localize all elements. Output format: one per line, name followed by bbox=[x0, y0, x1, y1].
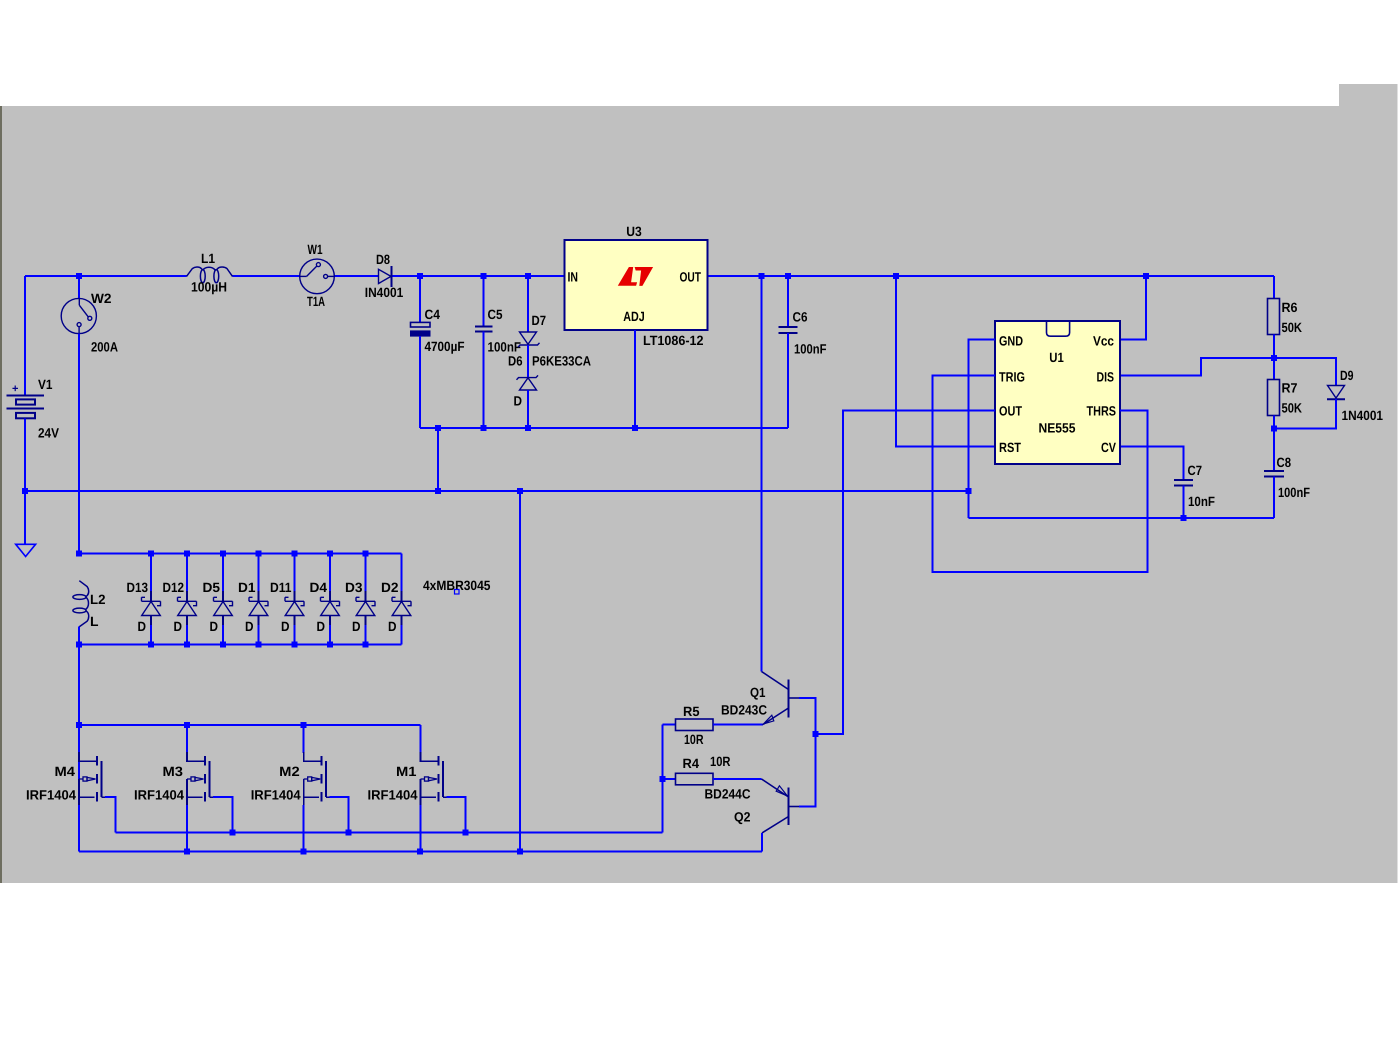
wire: Q2 base to junction bbox=[799, 734, 816, 807]
svg-text:R5: R5 bbox=[683, 704, 700, 719]
lead: source exit of M2 bbox=[326, 796, 331, 798]
resistor R4 body bbox=[676, 773, 714, 785]
node: D5 on bottom bus bbox=[220, 642, 226, 648]
wire: battery negative to ground bbox=[24, 418, 26, 544]
capacitor C8 plates bbox=[1264, 471, 1284, 477]
svg-text:D12: D12 bbox=[163, 580, 185, 595]
node: M1 source on bus bbox=[463, 830, 469, 836]
svg-text:T1A: T1A bbox=[307, 294, 325, 309]
wire: top rail to C6 bbox=[787, 276, 789, 327]
wire: D6 to ADJ rail bbox=[527, 390, 529, 428]
ammeter W2 body bbox=[61, 298, 96, 333]
svg-text:D13: D13 bbox=[127, 580, 149, 595]
wire: top bus to D12 bbox=[186, 554, 188, 593]
wire: junction to R7 bbox=[1273, 358, 1275, 380]
lead: source stub of M1 bbox=[421, 796, 437, 798]
node: D4 on top bus bbox=[327, 551, 333, 557]
node: gate-bus drop / ground bus bbox=[517, 488, 523, 494]
lead: anode of D5 bbox=[222, 591, 224, 601]
wire: drain riser of M4 bbox=[78, 725, 80, 753]
wire: riser to R5 bbox=[663, 724, 676, 726]
wire: R5 to Q1 emitter bbox=[713, 724, 763, 726]
resistor R6 body bbox=[1268, 299, 1280, 335]
node: M4 drain tap bbox=[76, 722, 82, 728]
wire: top bus to D13 bbox=[150, 554, 152, 593]
node: D3 on bottom bus bbox=[363, 642, 369, 648]
wire: D11 to bottom bus bbox=[294, 625, 296, 645]
wire: TRIG-THRS loop bbox=[933, 376, 1148, 573]
wire: riser to R4 bbox=[663, 778, 676, 780]
node: D4 on bottom bus bbox=[327, 642, 333, 648]
svg-text:100nF: 100nF bbox=[1278, 485, 1310, 500]
svg-text:P6KE33CA: P6KE33CA bbox=[532, 354, 591, 369]
svg-text:D: D bbox=[317, 619, 326, 634]
svg-text:IN4001: IN4001 bbox=[365, 285, 404, 300]
ground symbol bbox=[16, 544, 36, 556]
lead: anode of D12 bbox=[186, 591, 188, 601]
svg-text:LT1086-12: LT1086-12 bbox=[643, 333, 704, 348]
battery V1 long plate 2 bbox=[7, 407, 45, 409]
svg-text:C7: C7 bbox=[1188, 463, 1203, 478]
wire: R4 to Q2 emitter bbox=[713, 778, 762, 780]
node: ADJ pin on ADJ rail bbox=[632, 425, 638, 431]
svg-text:D3: D3 bbox=[345, 580, 363, 595]
svg-text:CV: CV bbox=[1101, 440, 1116, 455]
wire: ground return line bbox=[969, 517, 1275, 519]
svg-text:THRS: THRS bbox=[1087, 404, 1117, 419]
svg-text:10nF: 10nF bbox=[1188, 494, 1215, 509]
transistor M2 symbol bbox=[322, 756, 326, 802]
lead: cathode of D5 bbox=[222, 616, 224, 627]
svg-text:50K: 50K bbox=[1282, 320, 1303, 335]
svg-text:D: D bbox=[388, 619, 397, 634]
capacitor C4 plate 2 (solid) bbox=[411, 331, 431, 336]
wire: D4 to bottom bus bbox=[329, 625, 331, 645]
svg-text:L1: L1 bbox=[201, 251, 215, 266]
svg-text:R7: R7 bbox=[1282, 381, 1298, 396]
svg-text:OUT: OUT bbox=[680, 270, 702, 285]
lead: source stub of M3 bbox=[187, 796, 203, 798]
node: D11 on top bus bbox=[292, 551, 298, 557]
svg-text:D8: D8 bbox=[376, 252, 390, 267]
wire: MOSFET drain bus bbox=[79, 724, 421, 726]
svg-text:M3: M3 bbox=[163, 764, 184, 779]
lead: source stub of M4 bbox=[79, 796, 95, 798]
inductor L1 bbox=[187, 267, 233, 283]
ammeter W1 body bbox=[300, 259, 335, 294]
wire: source of M4 to source bus bbox=[105, 797, 116, 832]
wire: top rail to C5 bbox=[483, 276, 485, 326]
capacitor C6 plates bbox=[779, 327, 798, 333]
node: R6/R7/DIS/D9 junction bbox=[1271, 355, 1277, 361]
wire: junction to C8 bbox=[1273, 429, 1275, 472]
svg-text:D4: D4 bbox=[310, 580, 328, 595]
lead: gate line of M4 bbox=[78, 779, 80, 806]
LT logo left glyph bbox=[618, 267, 637, 286]
wire: gate line of M3 to bottom bus bbox=[186, 805, 188, 852]
node: D11 on bottom bus bbox=[292, 642, 298, 648]
svg-text:Vcc: Vcc bbox=[1093, 334, 1114, 349]
wire: D9 cathode to lower junction bbox=[1274, 399, 1336, 428]
svg-text:R4: R4 bbox=[683, 756, 700, 771]
IC U1 notch bbox=[1047, 322, 1070, 336]
capacitor C5 plates bbox=[475, 326, 493, 331]
lead: source exit of M1 bbox=[443, 796, 448, 798]
svg-text:R6: R6 bbox=[1282, 300, 1298, 315]
node: M2 drain tap bbox=[301, 722, 307, 728]
wire: D5 to bottom bus bbox=[222, 625, 224, 645]
node: M3 gate on bottom bus bbox=[184, 849, 190, 855]
wire: RST riser and lead bbox=[896, 276, 995, 447]
svg-text:D5: D5 bbox=[203, 580, 221, 595]
wire: C8 to ground return bbox=[1273, 477, 1275, 519]
node: rail link on ADJ rail bbox=[435, 425, 441, 431]
wire: top rail segment D8 to U3 IN bbox=[392, 275, 565, 277]
svg-text:4xMBR3045: 4xMBR3045 bbox=[423, 578, 491, 593]
svg-text:100nF: 100nF bbox=[794, 342, 827, 357]
wire: ADJ/ground rail bbox=[420, 427, 788, 429]
wire: top rail to W2 bbox=[78, 276, 80, 298]
lead: anode of D1 bbox=[258, 591, 260, 601]
node: C5 tap on top rail bbox=[481, 273, 487, 279]
capacitor C4 plate 1 bbox=[411, 322, 431, 327]
wire: top bus to D3 bbox=[365, 554, 367, 593]
svg-text:C4: C4 bbox=[425, 307, 441, 322]
svg-text:U3: U3 bbox=[626, 224, 642, 239]
svg-text:D: D bbox=[245, 619, 254, 634]
wire: gate line of M2 to bottom bus bbox=[303, 805, 305, 852]
wire: C6 to ADJ rail bbox=[787, 333, 789, 428]
regulator U3 body bbox=[565, 240, 708, 330]
wire: ADJ rail to ground bus link bbox=[437, 428, 439, 491]
svg-text:TRIG: TRIG bbox=[999, 370, 1025, 385]
resistor R7 body bbox=[1268, 380, 1280, 416]
wire: battery V1 positive riser bbox=[24, 276, 26, 396]
wire: top bus to D5 bbox=[222, 554, 224, 593]
node: D12 on bottom bus bbox=[184, 642, 190, 648]
wire: source bus bbox=[116, 832, 663, 834]
inductor L2 bbox=[73, 581, 89, 627]
wire: D3 to bottom bus bbox=[365, 625, 367, 645]
wire: junction to D9 anode bbox=[1274, 358, 1336, 386]
svg-text:100nF: 100nF bbox=[488, 340, 522, 355]
wire: top bus to D4 bbox=[329, 554, 331, 593]
lead: drain of M1 bbox=[421, 752, 438, 761]
wire: source bus riser to R5/R4 bbox=[662, 725, 664, 833]
svg-text:DIS: DIS bbox=[1097, 370, 1115, 385]
wire: GND lead down to ground return bbox=[969, 340, 996, 519]
node: top bus left end bbox=[76, 551, 82, 557]
ammeter W2 needle bbox=[77, 299, 92, 334]
svg-text:BD243C: BD243C bbox=[721, 703, 767, 718]
schottky diode D11 bbox=[285, 597, 304, 615]
svg-text:1N4001: 1N4001 bbox=[1342, 408, 1384, 423]
svg-text:4700µF: 4700µF bbox=[425, 339, 465, 354]
schottky diode D13 bbox=[142, 597, 161, 615]
wire: D13 to bottom bus bbox=[150, 625, 152, 645]
svg-text:L2: L2 bbox=[90, 592, 106, 607]
battery V1 long plate 1 bbox=[7, 394, 45, 396]
wire: U3 ADJ pin drop bbox=[634, 330, 636, 428]
wire: gate line of M1 to bottom bus bbox=[420, 805, 422, 852]
svg-text:C8: C8 bbox=[1277, 455, 1292, 470]
wire: drain riser of M1 bbox=[420, 725, 422, 753]
lead: anode of D2 bbox=[401, 591, 403, 601]
battery V1 short plate 1 bbox=[16, 399, 35, 404]
svg-text:OUT: OUT bbox=[999, 404, 1023, 419]
node: W2 tap on top rail bbox=[76, 273, 82, 279]
wire: top bus to D1 bbox=[258, 554, 260, 593]
node: C6 tap on top rail bbox=[785, 273, 791, 279]
lead: anode of D11 bbox=[294, 591, 296, 601]
transistor M3 symbol bbox=[205, 756, 209, 802]
node: D3 on top bus bbox=[363, 551, 369, 557]
wire: D7 to D6 bbox=[527, 345, 529, 378]
transistor Q2 bbox=[762, 779, 801, 833]
svg-text:24V: 24V bbox=[38, 426, 59, 441]
lead: cathode of D11 bbox=[294, 616, 296, 627]
svg-text:D2: D2 bbox=[381, 580, 399, 595]
wire: C7 to ground return bbox=[1183, 486, 1185, 519]
svg-text:D: D bbox=[352, 619, 361, 634]
wire: top rail to D7 bbox=[527, 276, 529, 332]
svg-text:W1: W1 bbox=[308, 242, 323, 257]
lead: drain of M4 bbox=[79, 752, 96, 761]
node: C4 tap on top rail bbox=[417, 273, 423, 279]
svg-text:200A: 200A bbox=[91, 340, 118, 355]
wire: top rail segment L1 to W1 bbox=[233, 275, 301, 277]
node: RST riser tap bbox=[893, 273, 899, 279]
schottky diode D1 bbox=[249, 597, 268, 615]
svg-text:Q1: Q1 bbox=[750, 685, 766, 700]
node: D1 on bottom bus bbox=[256, 642, 262, 648]
lead: source exit of M3 bbox=[209, 796, 214, 798]
wire: DIS to R6/R7 junction bbox=[1120, 358, 1274, 376]
wire: drain riser of M3 bbox=[186, 725, 188, 753]
svg-text:100µH: 100µH bbox=[191, 280, 227, 295]
selection marker square bbox=[455, 590, 460, 595]
schottky diode D4 bbox=[321, 597, 340, 615]
node: rail link / ground bus bbox=[435, 488, 441, 494]
transistor M4 symbol bbox=[97, 756, 101, 802]
svg-text:L: L bbox=[90, 614, 99, 629]
lead: anode of D13 bbox=[150, 591, 152, 601]
svg-text:10R: 10R bbox=[710, 754, 731, 769]
node: M3 drain tap bbox=[184, 722, 190, 728]
transistor M1 symbol bbox=[439, 756, 443, 802]
TVS diode D7 bbox=[518, 332, 540, 347]
svg-text:C5: C5 bbox=[488, 307, 503, 322]
node: D1 on top bus bbox=[256, 551, 262, 557]
node: D6 on ADJ rail bbox=[525, 425, 531, 431]
lead: cathode of D1 bbox=[258, 616, 260, 627]
svg-text:U1: U1 bbox=[1049, 350, 1064, 365]
svg-text:10R: 10R bbox=[684, 732, 704, 747]
node: Vcc riser tap bbox=[1143, 273, 1149, 279]
node: D5 on top bus bbox=[220, 551, 226, 557]
svg-text:ADJ: ADJ bbox=[623, 309, 645, 324]
lead: cathode of D3 bbox=[365, 616, 367, 627]
TVS diode D6 bbox=[517, 375, 539, 390]
wire: CV lead to C7 bbox=[1120, 447, 1184, 481]
lead: gate line of M1 bbox=[420, 779, 422, 806]
wire: source of M3 to source bus bbox=[213, 797, 232, 832]
svg-text:IRF1404: IRF1404 bbox=[251, 788, 301, 803]
lead: cathode of D2 bbox=[401, 616, 403, 627]
lead: anode of D4 bbox=[329, 591, 331, 601]
lead: gate line of M2 bbox=[303, 779, 305, 806]
wire: OUT to transistor bases bbox=[816, 411, 996, 735]
node: D7 tap on top rail bbox=[525, 273, 531, 279]
node: ground drop on bottom bus bbox=[517, 849, 523, 855]
wire: D12 to bottom bus bbox=[186, 625, 188, 645]
lead: cathode of D12 bbox=[186, 616, 188, 627]
LT logo right glyph bbox=[635, 267, 654, 286]
lead: anode of D3 bbox=[365, 591, 367, 601]
svg-text:GND: GND bbox=[999, 334, 1023, 349]
wire: top rail to C4 bbox=[419, 276, 421, 322]
capacitor C7 plates bbox=[1174, 480, 1193, 486]
wire: R7 to lower junction bbox=[1273, 416, 1275, 429]
svg-text:D: D bbox=[514, 394, 523, 409]
wire: left drop diode bus to bottom bus bbox=[78, 645, 80, 852]
lead: cathode of D13 bbox=[150, 616, 152, 627]
node: Q1 collector riser tap bbox=[759, 273, 765, 279]
schottky diode D5 bbox=[214, 597, 233, 615]
wire: top bus to D11 bbox=[294, 554, 296, 593]
node: D13 on bottom bus bbox=[148, 642, 154, 648]
schottky diode D3 bbox=[356, 597, 375, 615]
svg-text:D: D bbox=[174, 619, 183, 634]
wire: top rail segment U3 OUT to R6 bbox=[708, 275, 1275, 277]
svg-text:D: D bbox=[281, 619, 290, 634]
svg-text:RST: RST bbox=[999, 440, 1022, 455]
diode D9 bbox=[1327, 386, 1345, 400]
svg-text:50K: 50K bbox=[1282, 401, 1303, 416]
ammeter W1 needle bbox=[300, 263, 334, 279]
wire: L2 to bottom bus bbox=[78, 627, 80, 645]
svg-text:Q2: Q2 bbox=[734, 810, 751, 825]
wire: top rail segment W1 to D8 bbox=[334, 275, 379, 277]
svg-text:D6: D6 bbox=[508, 354, 523, 369]
wire: top bus to D2 bbox=[401, 554, 403, 593]
wire: Q1 base to junction bbox=[799, 698, 816, 734]
wire: C5 to ADJ rail bbox=[483, 332, 485, 428]
svg-text:+: + bbox=[12, 383, 18, 395]
resistor R5 body bbox=[676, 719, 714, 731]
svg-text:D9: D9 bbox=[1340, 368, 1354, 383]
node: M2 gate on bottom bus bbox=[301, 849, 307, 855]
wire: drain riser of M2 bbox=[303, 725, 305, 753]
battery V1 short plate 2 bbox=[16, 413, 35, 418]
wire: W2 to diode top bus bbox=[78, 334, 80, 554]
wire: Vcc riser and lead bbox=[1120, 276, 1146, 340]
gray step top-right bbox=[1339, 84, 1398, 108]
wire: gate line of M4 to bottom bus bbox=[78, 805, 80, 852]
wire: source of M2 to source bus bbox=[330, 797, 349, 832]
node: C5 on ADJ rail bbox=[481, 425, 487, 431]
node: C7 on ground return bbox=[1181, 515, 1187, 521]
svg-text:NE555: NE555 bbox=[1039, 421, 1076, 436]
svg-text:BD244C: BD244C bbox=[705, 787, 751, 802]
lead: source exit of M4 bbox=[101, 796, 106, 798]
lead: source stub of M2 bbox=[304, 796, 320, 798]
node: R4 tap on riser bbox=[660, 776, 666, 782]
wire: Q1 collector riser bbox=[761, 276, 763, 672]
wire: Q2 collector to bottom bus bbox=[761, 833, 763, 852]
left window border bbox=[0, 106, 2, 883]
schematic gray canvas bbox=[2, 106, 1398, 883]
svg-text:D11: D11 bbox=[270, 580, 292, 595]
schottky diode D2 bbox=[392, 597, 411, 615]
diode D8 bbox=[379, 266, 392, 287]
wire: ground bus to bottom bus drop bbox=[519, 491, 521, 852]
svg-text:D: D bbox=[210, 619, 219, 634]
schottky diode D12 bbox=[178, 597, 197, 615]
wire: source of M1 to source bus bbox=[447, 797, 466, 832]
wire: C4 to ADJ rail bbox=[419, 336, 421, 428]
transistor Q1 bbox=[762, 672, 801, 725]
lead: drain of M2 bbox=[304, 752, 321, 761]
lead: cathode of D4 bbox=[329, 616, 331, 627]
wire: D1 to bottom bus bbox=[258, 625, 260, 645]
svg-text:IRF1404: IRF1404 bbox=[134, 788, 184, 803]
svg-text:C6: C6 bbox=[793, 310, 808, 325]
wire: ground bus bbox=[25, 490, 969, 492]
lead: drain of M3 bbox=[187, 752, 204, 761]
node: NE555 GND / ground bus bbox=[966, 488, 972, 494]
svg-text:IRF1404: IRF1404 bbox=[26, 788, 76, 803]
lead: gate line of M3 bbox=[186, 779, 188, 806]
svg-text:M1: M1 bbox=[396, 764, 417, 779]
wire: diode bank top bus bbox=[79, 553, 402, 555]
svg-text:D7: D7 bbox=[532, 313, 547, 328]
node: D12 on top bus bbox=[184, 551, 190, 557]
svg-text:W2: W2 bbox=[91, 291, 112, 306]
node: V1 / ground bus junction bbox=[22, 488, 28, 494]
wire: R6 to junction bbox=[1273, 335, 1275, 359]
node: M1 gate on bottom bus bbox=[417, 849, 423, 855]
svg-text:D1: D1 bbox=[238, 580, 256, 595]
node: Q1/Q2 base junction bbox=[813, 731, 819, 737]
wire: diode bank bottom bus bbox=[79, 644, 402, 646]
node: R7/D9/C8 junction bbox=[1271, 426, 1277, 432]
node: M2 source on bus bbox=[345, 830, 351, 836]
svg-text:M2: M2 bbox=[279, 764, 300, 779]
wire: top rail segment V1 to L1 bbox=[25, 275, 187, 277]
svg-text:M4: M4 bbox=[55, 764, 76, 779]
svg-text:V1: V1 bbox=[38, 377, 53, 392]
wire: bottom gate bus bbox=[79, 851, 762, 853]
IC U1 NE555 body bbox=[995, 321, 1120, 464]
svg-text:IRF1404: IRF1404 bbox=[368, 788, 418, 803]
svg-text:D: D bbox=[138, 619, 147, 634]
node: bottom bus left end bbox=[76, 642, 82, 648]
wire: top rail corner to R6 bbox=[1273, 276, 1275, 299]
node: M3 source on bus bbox=[229, 830, 235, 836]
svg-text:IN: IN bbox=[568, 270, 579, 285]
node: D13 on top bus bbox=[148, 551, 154, 557]
wire: D2 to bottom bus bbox=[401, 625, 403, 645]
